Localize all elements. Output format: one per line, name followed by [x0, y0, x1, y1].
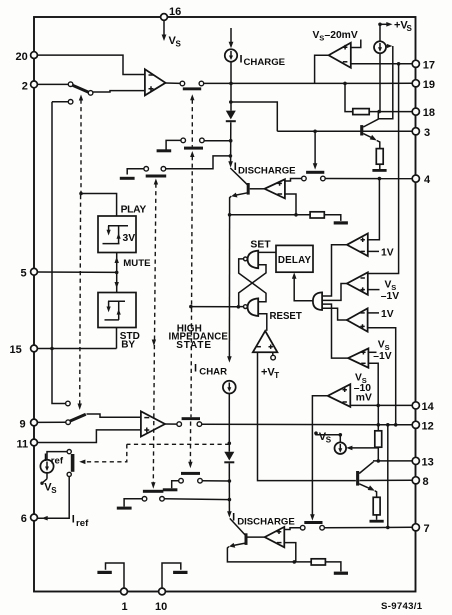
node S4 tap on discharge rail — [229, 139, 233, 143]
pin 1 ground contact — [97, 563, 124, 588]
label 1V at C1 — [368, 247, 394, 258]
wire charge node to transistor Q1 base / pin 3 — [231, 102, 412, 131]
wire pin11 to op-amp B1 non-inverting input — [37, 430, 140, 443]
switch S1 (play/mute input switch) — [68, 82, 93, 95]
svg-text:S-9743/1: S-9743/1 — [381, 601, 423, 612]
wire I-CHAR source down to diode D2 — [228, 394, 230, 452]
svg-text:15: 15 — [10, 344, 22, 356]
pin 18 — [412, 107, 435, 119]
svg-text:S: S — [176, 40, 182, 49]
DELAY box — [276, 245, 313, 272]
node op-amp D1 inverting tap — [294, 213, 298, 217]
svg-text:ref: ref — [76, 518, 89, 529]
pin 13 — [412, 457, 434, 469]
wire S2 row to I-discharge node — [166, 156, 231, 169]
wire I-ref switch to pin 6 — [37, 477, 69, 521]
pin 5 — [21, 268, 38, 280]
pin 15 — [10, 344, 38, 356]
dashed control line to I-ref switch — [79, 444, 229, 464]
wire pin9 to switch S7 — [37, 421, 65, 423]
wire C1 output to gate G1 input 1 — [322, 245, 347, 296]
node latch input tap — [237, 305, 241, 309]
node control tap on pin3 line — [313, 130, 317, 134]
svg-text:1V: 1V — [381, 309, 394, 320]
label I CHAR — [194, 362, 227, 377]
svg-text:1: 1 — [122, 601, 128, 613]
supply VS below I-ref — [40, 472, 57, 495]
dashed control line S1 to PLAY node — [79, 95, 83, 194]
transistor T2 (lower discharge) — [229, 518, 248, 547]
label I DISCHARGE upper — [234, 161, 296, 176]
wire Q1 emitter to resistor R3 — [377, 141, 380, 149]
wire pin20 to op-amp A inverting input — [37, 55, 144, 74]
svg-text:4: 4 — [424, 174, 431, 186]
svg-text:–1V: –1V — [381, 291, 399, 302]
svg-text:I: I — [240, 53, 243, 65]
+VT input terminal — [261, 352, 279, 380]
label VS -1V at C2 — [368, 279, 399, 302]
svg-text:I: I — [194, 362, 197, 374]
dashed rail arrow onto S7 — [78, 195, 82, 410]
switch S1 alternate contact — [52, 100, 73, 105]
current source I-ref — [40, 452, 63, 473]
supply +VS mid right — [314, 431, 340, 445]
comparator VS-20mV (top right, points left) — [329, 43, 351, 68]
comparator C2 (VS-1V, points left) — [347, 272, 368, 295]
wire op-amp D2 output to T2 base — [248, 536, 265, 538]
wire op-amp A1 output to switch S3 — [166, 82, 181, 84]
wire latch input to dashed rail — [191, 306, 239, 308]
svg-text:SET: SET — [250, 240, 271, 251]
wire STANDBY box to pin15 line — [116, 328, 118, 349]
wire N2 to comparator C6 output (RESET line) — [258, 314, 267, 331]
wire PLAY node to PLAY box — [81, 194, 117, 217]
node I-charge tap on pin19 line — [229, 82, 233, 86]
node dashed control takeoff — [228, 442, 232, 446]
ground after resistor R6 — [325, 562, 348, 575]
pin 1 — [121, 588, 128, 613]
svg-text:S: S — [407, 24, 413, 33]
op-amp A1 (upper input amplifier) — [145, 69, 166, 95]
wire T1 emitter loop to resistor R1 — [230, 196, 311, 215]
svg-text:13: 13 — [422, 457, 434, 469]
svg-text:–1V: –1V — [373, 351, 391, 362]
VS supply arrow at pin16 — [162, 20, 182, 48]
dashed control rail S3 down to op-amp B switch — [190, 94, 194, 417]
node rail tap on pin7 line — [386, 526, 390, 530]
svg-text:5: 5 — [21, 268, 27, 280]
svg-text:+V: +V — [261, 367, 275, 379]
rail pin17 node down to comparator C2 — [368, 64, 399, 274]
supply +VS top right — [378, 20, 412, 34]
gate G1 (summing gate, points left) — [313, 292, 322, 310]
wire op-amp D1 plus input to switch S5 — [285, 179, 302, 182]
wire C2 output to gate G1 input 2 — [322, 284, 347, 301]
wire switch S1 to op-amp A non-inverting input — [93, 91, 145, 92]
node pin4 comparator tap — [378, 177, 382, 181]
svg-text:PLAY: PLAY — [121, 205, 147, 216]
current source I-CHARGE — [225, 49, 237, 61]
control arm wire into S5 bar — [313, 131, 318, 169]
wire C6 minus input rail down to Q2 base / pin 8 — [258, 352, 413, 480]
node C3 rail tap on pin12 line — [394, 423, 398, 427]
wire C3 plus input to pin12 rail — [368, 328, 396, 425]
switch SB1 contact row lower — [117, 490, 165, 510]
pin 8 — [412, 476, 428, 488]
pin 11 — [17, 438, 38, 450]
transistor T1 (upper discharge) — [230, 168, 249, 198]
wire SB1 to discharge rail — [164, 498, 229, 501]
wire Q2 emitter to resistor R5 — [375, 491, 377, 498]
switch S7 (lower input switch) — [66, 414, 86, 424]
dashed control rail left (S2 row to lower contacts) — [151, 179, 158, 489]
switch S5 (pin 4 switch) — [302, 171, 326, 181]
switch S8 (op-amp B1 output switch) — [177, 417, 202, 426]
transistor Q2 (pin 13 output device) — [356, 462, 375, 491]
wire op-amp B1 output to switch S8 — [165, 423, 177, 425]
wire op-amp D1 minus input loop — [285, 194, 296, 215]
wire gate G1 output to DELAY — [292, 272, 313, 300]
figure number S-9743/1 — [381, 601, 423, 612]
rail pin4 node down to comparator C1 plus — [368, 179, 379, 240]
wire op-amp D2 plus input to switch S6 — [284, 528, 300, 530]
left rail wire from S1 contact down to S2 contact — [52, 102, 66, 404]
svg-text:11: 11 — [17, 438, 29, 450]
comparator C5 (VS-10mV, points left) — [328, 384, 351, 407]
node S2 tap on discharge rail — [229, 154, 233, 158]
label I ref at pin6 — [72, 514, 89, 529]
label 1V at C3 — [368, 309, 394, 320]
comparator C1 (1V, points left) — [347, 234, 368, 257]
label I CHARGE — [240, 53, 286, 68]
wire C4 output up to gate G1 input 3 — [322, 304, 348, 358]
comparator C6 (+VT, points up) — [253, 331, 278, 352]
PLAY level-shift box with 3V label — [98, 216, 136, 253]
rail pin12 node down to pin7 line — [387, 425, 389, 528]
node R4 tap on pin12 line — [377, 423, 381, 427]
frame border — [34, 17, 416, 592]
wire I-ref source to pass switch top — [47, 452, 67, 460]
svg-text:STATE: STATE — [176, 340, 212, 351]
wire C5 output down to pin7 switch bar — [310, 396, 328, 521]
svg-text:mV: mV — [356, 393, 372, 404]
svg-text:S: S — [51, 486, 57, 495]
node pin13 junction — [377, 459, 381, 463]
MUTE wire with arrows between boxes — [115, 253, 119, 293]
wire diode D1 down to I-discharge arrow — [228, 122, 233, 167]
pin 9 — [20, 418, 38, 430]
svg-text:RESET: RESET — [270, 311, 302, 322]
switch S3 (op-amp A1 output switch) — [180, 81, 204, 90]
svg-text:14: 14 — [422, 401, 435, 413]
svg-text:3V: 3V — [123, 233, 136, 244]
transistor Q1 (pin 3 output device) — [360, 119, 378, 141]
node lower switch tap 1 — [228, 479, 232, 483]
pin 17 — [412, 59, 435, 71]
comparator C4 (VS-1V lower, points left) — [348, 348, 368, 367]
resistor R2 between pin19 node and pin18 line — [345, 83, 412, 114]
wire I-CHARGE source down to diode D1 — [230, 62, 232, 111]
wire pin13 line — [373, 460, 412, 462]
svg-text:19: 19 — [423, 79, 435, 91]
pin 20 — [16, 51, 38, 63]
pin 2 — [22, 80, 38, 92]
svg-text:16: 16 — [169, 6, 181, 18]
svg-text:CHARGE: CHARGE — [244, 57, 286, 68]
svg-text:9: 9 — [20, 418, 26, 430]
ground below resistor R3 — [372, 164, 386, 172]
pin 10 ground contact — [162, 563, 188, 588]
pass transistor switch (I-ref) — [67, 450, 74, 477]
switch S7 alternate contact — [66, 401, 71, 406]
wire current source to resistor R4 bottom node — [346, 446, 378, 451]
diode D2 — [224, 452, 234, 464]
wire SB2 to discharge rail — [202, 480, 229, 482]
resistor R1 — [310, 212, 324, 218]
diode D1 — [226, 111, 236, 123]
wire T2 emitter loop to resistor R6 — [227, 547, 311, 562]
resistor R3 — [376, 149, 383, 165]
node lower switch tap 2 — [228, 498, 232, 502]
svg-text:S: S — [326, 435, 332, 444]
svg-text:18: 18 — [423, 107, 435, 119]
wire pin15 — [37, 348, 116, 350]
node charge line tap — [229, 100, 233, 104]
svg-text:8: 8 — [423, 476, 429, 488]
wire S6 to pin 7 — [324, 526, 412, 528]
wire C4 minus input down to pin14 line — [368, 363, 378, 405]
wire comparator VS-20mV minus to pin 17 — [351, 63, 412, 65]
ground below resistor R5 — [370, 515, 384, 523]
svg-text:CHAR: CHAR — [199, 367, 227, 378]
svg-text:DELAY: DELAY — [278, 255, 312, 266]
pin 3 — [412, 127, 430, 139]
switch S2 contact row upper (to ground pad) — [120, 167, 166, 180]
switch S4 contact row upper second — [157, 138, 205, 152]
pin 19 — [412, 79, 435, 91]
current source mid right — [335, 435, 347, 454]
svg-text:I: I — [72, 514, 75, 526]
switch SB2 contact row lower — [163, 472, 203, 491]
branch arrow from current source to Q1 collector rail — [378, 44, 393, 119]
ground after resistor R1 — [324, 215, 348, 225]
switch S6 (pin 7 switch) — [300, 521, 324, 530]
node rail/pin15 crossing — [50, 347, 54, 351]
resistor R5 — [373, 497, 380, 515]
svg-text:20: 20 — [16, 51, 28, 63]
op-amp B1 (lower input amplifier) — [141, 411, 165, 436]
wire op-amp A1 switched output to pin 19 — [204, 82, 413, 84]
svg-text:6: 6 — [21, 513, 27, 525]
svg-text:17: 17 — [423, 59, 435, 71]
pin 4 — [412, 174, 431, 186]
latch cross-coupling wires — [239, 259, 266, 307]
dashed rail segment onto SB2 bar — [188, 422, 192, 469]
label I DISCHARGE lower — [232, 512, 295, 528]
wire C5 minus row to pin 14 — [350, 404, 412, 406]
svg-text:1V: 1V — [381, 247, 394, 258]
wire S5 to pin 4 — [325, 178, 412, 180]
wire S7 arm to op-amp B1 inverting input — [87, 414, 141, 417]
pin 16 — [161, 6, 182, 20]
latch gate N2 — [244, 298, 259, 316]
node on dashed control rail — [189, 305, 193, 309]
pin 14 — [412, 401, 434, 413]
label VS -10 mV at C5 — [354, 372, 372, 403]
node pin17 rail tap — [397, 62, 401, 66]
node C4 tap on pin14 line — [376, 404, 380, 408]
wire op-amp B1 switched output to pin 12 — [202, 423, 413, 426]
op-amp D2 (lower discharge control, points left) — [265, 527, 285, 547]
wire comparator VS-20mV output to pin19 line — [315, 55, 329, 83]
current source upper right — [374, 24, 386, 53]
comparator C3 (1V, points left) — [347, 308, 368, 331]
node resistor tap on pin19 line — [343, 82, 347, 86]
svg-text:10: 10 — [155, 601, 167, 613]
svg-text:–20mV: –20mV — [325, 30, 358, 41]
op-amp D1 (upper discharge control, points left) — [265, 179, 285, 198]
node PLAY junction — [79, 192, 83, 196]
svg-text:3: 3 — [424, 127, 430, 139]
latch gate N1 — [244, 251, 259, 269]
resistor R6 — [311, 559, 325, 565]
label VS -1V at C4 — [368, 340, 391, 362]
pin 7 — [412, 523, 429, 535]
pin 10 — [155, 588, 167, 613]
node T1 loop corner — [228, 213, 232, 217]
current source I-CHAR — [223, 381, 236, 394]
svg-text:ref: ref — [51, 456, 64, 467]
wire current source to pin18 node — [379, 53, 381, 111]
pin 6 — [21, 513, 38, 525]
node MUTE / pin5 junction — [115, 271, 119, 275]
svg-text:DISCHARGE: DISCHARGE — [238, 165, 296, 176]
svg-text:12: 12 — [422, 420, 434, 432]
node current source feed — [339, 433, 343, 437]
node pin18 line junction — [377, 110, 381, 114]
svg-text:DISCHARGE: DISCHARGE — [237, 516, 295, 527]
label HIGH IMPEDANCE STATE — [169, 323, 229, 351]
wire C3 output to gate G1 input 4 — [322, 308, 347, 320]
node rail tap on pin12 line — [386, 423, 390, 427]
pin 12 — [412, 420, 434, 432]
wire op-amp D2 minus input loop — [284, 543, 296, 562]
STANDBY level-shift box — [98, 293, 136, 328]
current source I-CHARGE feed arrow — [229, 28, 234, 48]
svg-text:2: 2 — [22, 80, 28, 92]
label VS -20mV with leader — [313, 30, 361, 48]
node op-amp D2 inverting tap — [293, 560, 297, 564]
wire diode D2 down to I-discharge arrow lower — [227, 463, 232, 517]
svg-text:T: T — [274, 371, 279, 380]
wire T1 loop rail down to I-CHAR source — [227, 215, 232, 363]
resistor R4 — [375, 405, 382, 461]
svg-text:BY: BY — [121, 340, 135, 351]
wire op-amp D1 output to T1 base — [250, 188, 265, 190]
wire N1 to DELAY (SET line) — [258, 251, 276, 253]
svg-text:MUTE: MUTE — [123, 258, 151, 269]
wire pin2 to switch S1 — [37, 83, 68, 85]
wire S4 row to diode node — [204, 140, 231, 142]
wire pin5 to MUTE node — [37, 271, 116, 273]
svg-text:7: 7 — [424, 523, 430, 535]
